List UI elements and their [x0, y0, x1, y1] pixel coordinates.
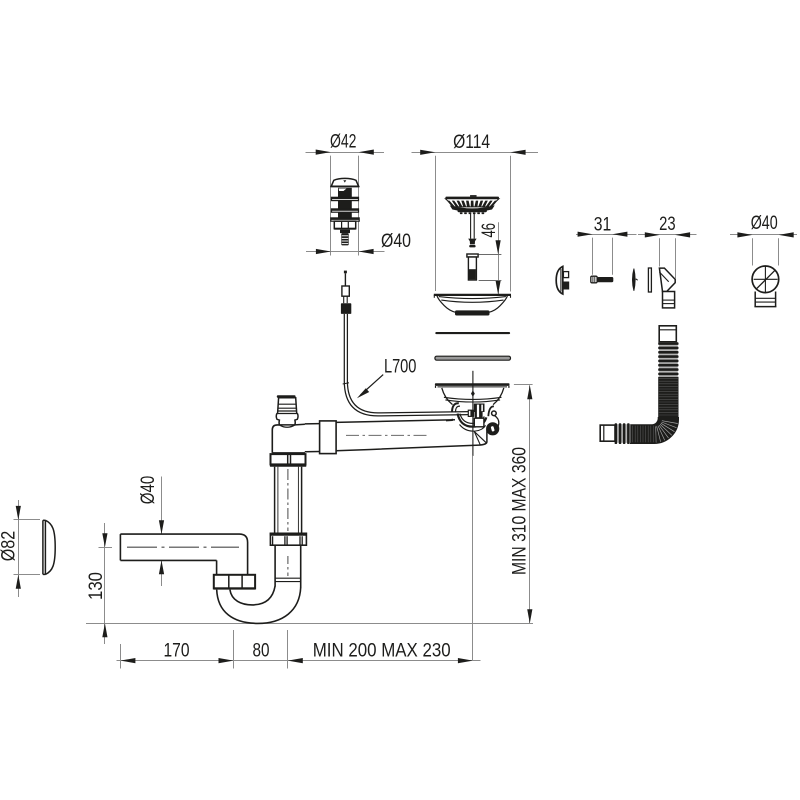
label L700 (cable length) with leader — [357, 356, 417, 398]
trap inlet nut — [213, 575, 256, 590]
pop-up control knob (&#216;42 / &#216;40) — [330, 178, 359, 245]
elbow union nut — [270, 454, 306, 467]
dimension 46 (overflow piece height) — [479, 222, 502, 294]
dimension Ø40 (hose connector diameter) — [730, 213, 797, 265]
vertical connection pipe — [275, 467, 302, 534]
horizontal drain pipe — [336, 419, 487, 451]
svg-text:Ø114: Ø114 — [453, 132, 490, 153]
svg-text:46: 46 — [479, 223, 500, 237]
hose lower loose corrugations — [615, 423, 631, 444]
svg-text:170: 170 — [164, 640, 190, 661]
dimension Ø82 (cover cap diameter) — [0, 500, 40, 597]
U-bend — [217, 586, 301, 623]
hose upper loose corrugations — [658, 342, 678, 376]
svg-text:Ø40: Ø40 — [381, 231, 411, 252]
dimension Ø40 (knob thread diameter) — [306, 231, 411, 254]
strainer basket (umbrella) — [445, 195, 499, 214]
pipe centerline — [346, 434, 428, 436]
overflow elbow piece (23 mm) — [659, 268, 675, 308]
trap riser tube — [275, 545, 301, 588]
curved washer — [632, 269, 637, 291]
sink flange cup — [434, 295, 511, 316]
dimension Ø114 (strainer diameter) — [412, 132, 539, 292]
svg-text:31: 31 — [594, 215, 612, 236]
cable rod fitting — [468, 410, 474, 417]
overflow insert piece (46 mm) — [467, 254, 478, 280]
release wire — [495, 416, 499, 429]
svg-text:130: 130 — [86, 572, 107, 600]
svg-text:Ø40: Ø40 — [751, 213, 778, 234]
drain centerline — [472, 371, 474, 456]
hose connector end view (&#216;40) — [752, 266, 779, 307]
cover cap &#216;82 (side view) — [43, 520, 55, 574]
overflow cover cap — [556, 266, 569, 294]
bottom reference line (trap lowest level) — [86, 623, 533, 625]
bowden cable (L700) — [343, 314, 470, 416]
svg-text:Ø42: Ø42 — [330, 132, 357, 153]
dimension 130 (outlet pipe drop) — [86, 523, 112, 644]
screw symbol (diamond) — [471, 390, 475, 397]
flat gasket strip — [648, 268, 651, 292]
dimension Ø40 (outlet pipe diameter) — [138, 476, 164, 586]
flat gasket — [435, 332, 510, 334]
drain flange — [435, 383, 510, 388]
hose end connector — [600, 425, 615, 441]
cable stirrup bracket — [452, 403, 494, 431]
pivot pin — [492, 411, 497, 416]
dimension Ø42 (knob cap diameter) — [306, 132, 385, 256]
dimension 31 (screw length) — [576, 215, 637, 275]
rubber gasket — [435, 356, 511, 360]
trap outlet pipe — [120, 534, 247, 574]
svg-text:80: 80 — [253, 640, 270, 661]
hose dense corrugations (vertical) — [658, 377, 678, 418]
ribbed hose nozzle — [276, 395, 298, 427]
cable pull pin and stop block — [341, 271, 351, 314]
svg-text:MIN 310 MAX 360: MIN 310 MAX 360 — [510, 447, 531, 575]
svg-text:Ø40: Ø40 — [138, 476, 159, 505]
outlet pipe centerline — [127, 546, 239, 548]
dimension MIN 310 MAX 360 (installation height) — [510, 385, 533, 624]
pipe coupling sleeve — [320, 421, 337, 454]
vertical pipe centerline — [287, 469, 289, 531]
svg-text:MIN 200 MAX 230: MIN 200 MAX 230 — [313, 640, 451, 661]
svg-text:L700: L700 — [384, 356, 417, 377]
pipe stub at elbow — [305, 424, 320, 452]
svg-text:Ø82: Ø82 — [0, 531, 20, 562]
dimension chain 170 / 80 / MIN 200 MAX 230 — [117, 456, 481, 669]
screw (31 mm) — [591, 276, 614, 283]
inlet elbow body — [272, 424, 305, 453]
hose upper connector — [659, 326, 676, 342]
basket stem with clip — [468, 213, 476, 247]
riser union nut — [270, 533, 307, 545]
locking knob — [486, 422, 499, 435]
hose bend (dense corrugations) — [630, 418, 678, 444]
cable clamp — [474, 404, 485, 427]
dimension 23 (overflow elbow offset) — [638, 214, 697, 279]
drain bowl — [442, 388, 504, 405]
svg-text:23: 23 — [659, 214, 676, 235]
riser centerline — [287, 556, 289, 576]
